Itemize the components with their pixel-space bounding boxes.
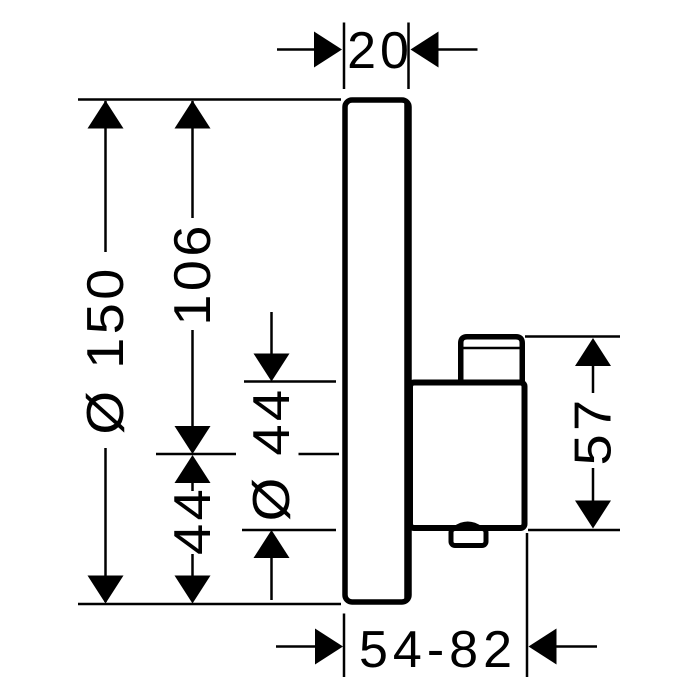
dim 54-82: right line xyxy=(557,645,598,648)
dim 20: right arrow xyxy=(411,32,439,68)
dim d44: lower line xyxy=(270,558,273,600)
dim 54-82: right extension line xyxy=(526,533,529,677)
svg-text:Ø 44: Ø 44 xyxy=(243,387,301,522)
svg-text:106: 106 xyxy=(164,222,222,325)
dim 106: top arrow xyxy=(175,101,211,129)
dim d44: bottom tick xyxy=(242,529,336,532)
dim 44: upper line xyxy=(191,483,194,491)
svg-text:Ø 150: Ø 150 xyxy=(77,265,135,434)
handle centerline dash at plate xyxy=(299,453,340,456)
dim 57: top extension line xyxy=(525,335,620,338)
dim 57: top arrow xyxy=(575,338,611,366)
dim 106: bottom arrow xyxy=(175,426,211,454)
svg-text:20: 20 xyxy=(347,22,413,80)
dim 54-82: right arrow xyxy=(529,629,557,665)
dim 150: bottom arrow xyxy=(88,576,124,604)
valve body (main handle) xyxy=(410,383,525,529)
dim 20: left extension line xyxy=(343,23,346,90)
dim 106: lower line xyxy=(191,330,194,430)
dim 150: top extension line xyxy=(78,98,341,101)
dim 106: upper line xyxy=(191,101,194,218)
temperature knob (upper) xyxy=(461,337,523,385)
dim 57: lower line xyxy=(592,468,595,501)
dim 44: lower line xyxy=(191,554,194,576)
dim 150: bottom extension line xyxy=(78,603,341,606)
dim 44: top arrow xyxy=(175,455,211,483)
dim 54-82: left arrow xyxy=(315,629,343,665)
svg-text:57: 57 xyxy=(564,397,622,466)
dim 54-82: left line xyxy=(276,645,315,648)
dim 20: right line xyxy=(439,48,478,51)
dim 20: left arrow xyxy=(314,32,342,68)
bottom tab dome xyxy=(455,524,482,529)
dim d44: top tick xyxy=(244,380,336,383)
dim 150: lower line xyxy=(104,448,107,602)
dim 57: bottom extension line xyxy=(528,529,620,532)
dim 57: upper line xyxy=(592,366,595,393)
svg-text:44: 44 xyxy=(164,486,222,555)
dim 57: bottom arrow xyxy=(575,501,611,529)
dim 20: left line xyxy=(277,48,314,51)
wall plate front face line xyxy=(404,103,409,599)
bottom tab xyxy=(451,529,486,546)
dim 150: upper line xyxy=(104,101,107,252)
dim d44: upper arrow xyxy=(254,354,290,382)
dim 150: top arrow xyxy=(88,101,124,129)
wall plate (side view) xyxy=(345,100,409,602)
dim 20: right extension line xyxy=(407,23,410,90)
dim d44: upper line xyxy=(270,312,273,355)
dim 54-82: left extension line xyxy=(343,614,346,678)
dim d44: lower arrow xyxy=(254,530,290,558)
svg-text:54-82: 54-82 xyxy=(359,621,517,679)
handle centerline tick xyxy=(156,453,236,456)
dim 44: bottom arrow xyxy=(175,576,211,604)
knob inner line xyxy=(463,347,520,350)
